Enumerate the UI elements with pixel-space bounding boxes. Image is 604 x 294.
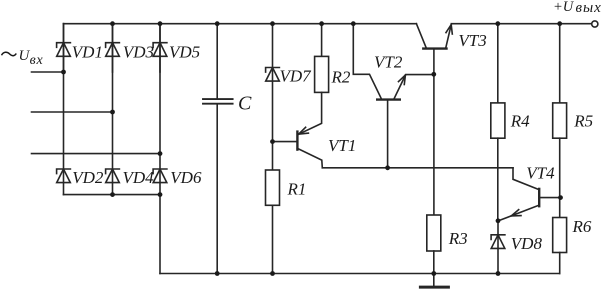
- transistor VT1 (PNP error amp): [273, 92, 323, 167]
- svg-text:VD1: VD1: [72, 42, 103, 61]
- resistor R4: [491, 24, 505, 221]
- wire: bridge column 3 vertical: [159, 24, 161, 274]
- wire: bridge column 1 vertical: [63, 24, 65, 195]
- svg-text:R6: R6: [572, 217, 592, 236]
- zener diode VD7: [266, 24, 280, 170]
- junction dots: bottom rail: [215, 271, 220, 276]
- wire: input phase 1: [32, 71, 64, 73]
- wire: bridge bottom connector: [64, 194, 161, 196]
- transistor VT3 (NPN pass): [416, 24, 452, 215]
- resistor R3: [427, 215, 441, 274]
- wire: bottom common rail: [160, 273, 560, 275]
- svg-text:VD3: VD3: [123, 42, 154, 61]
- diode VD4: [106, 169, 120, 183]
- resistor R5: [553, 24, 567, 198]
- wire: bridge column 2 vertical: [112, 24, 114, 195]
- junction dot: VT2 base node: [385, 165, 390, 170]
- resistor R6: [553, 198, 567, 274]
- junction dots: phase taps: [61, 70, 66, 75]
- capacitor C: [203, 24, 233, 274]
- svg-text:R4: R4: [510, 112, 530, 131]
- transistor VT4 (NPN comparator): [499, 168, 560, 221]
- wire: input phase 2: [32, 111, 113, 113]
- svg-text:VD2: VD2: [72, 168, 104, 187]
- svg-text:VT2: VT2: [374, 53, 403, 72]
- svg-text:VD7: VD7: [280, 67, 313, 86]
- svg-text:VD6: VD6: [170, 168, 202, 187]
- svg-text:вх: вх: [30, 53, 44, 68]
- svg-text:VD4: VD4: [123, 168, 155, 187]
- svg-text:VT3: VT3: [458, 31, 486, 50]
- svg-text:VT4: VT4: [526, 163, 555, 182]
- terminal +Uvyh output circle: [592, 21, 598, 27]
- transistor VT2 (NPN driver): [353, 24, 434, 168]
- junction dot: VT3 base node: [431, 72, 436, 77]
- junction dot: VT4 base node: [558, 195, 563, 200]
- label ~Uvx input: [2, 48, 44, 68]
- svg-text:R5: R5: [573, 112, 593, 131]
- svg-text:VD5: VD5: [169, 42, 200, 61]
- junction dot: VT1 base node: [270, 139, 275, 144]
- diode VD2: [57, 169, 71, 183]
- wire: control line (VT1/VT4 collectors to VT2 base): [322, 167, 513, 169]
- svg-text:R3: R3: [448, 229, 468, 248]
- resistor R2: [315, 24, 329, 93]
- diode VD6: [153, 169, 167, 183]
- svg-text:VD8: VD8: [511, 234, 543, 253]
- wire: top unregulated rail: [64, 23, 417, 25]
- svg-text:C: C: [238, 93, 252, 115]
- svg-text:вых: вых: [576, 0, 602, 16]
- junction dots on top rail: [110, 21, 115, 26]
- svg-text:R1: R1: [287, 180, 307, 199]
- svg-text:+U: +U: [553, 0, 575, 15]
- svg-text:VT1: VT1: [328, 136, 356, 155]
- resistor R1: [266, 170, 280, 274]
- svg-text:R2: R2: [331, 68, 351, 87]
- junction dot: VT4 emitter node: [496, 218, 501, 223]
- wire: top output rail (VT3 emitter to terminal): [451, 23, 591, 25]
- wire: input phase 3: [32, 153, 161, 155]
- label +Uvyh output: [553, 0, 602, 16]
- ground: [420, 274, 448, 288]
- diode VD5: [153, 24, 167, 72]
- zener diode VD8: [491, 221, 505, 274]
- diode VD1: [57, 24, 71, 72]
- junction dots: bridge bottom: [110, 192, 115, 197]
- diode VD3: [106, 24, 120, 72]
